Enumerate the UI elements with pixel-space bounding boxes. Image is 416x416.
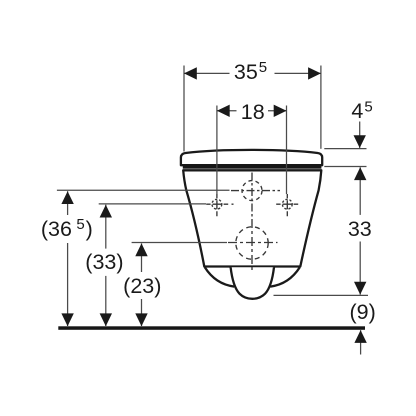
svg-text:(33): (33): [85, 250, 123, 274]
svg-text:(365): (365): [41, 216, 93, 241]
svg-text:(23): (23): [123, 274, 161, 298]
svg-text:18: 18: [241, 100, 265, 124]
svg-text:(9): (9): [349, 300, 375, 324]
svg-text:33: 33: [348, 217, 372, 241]
